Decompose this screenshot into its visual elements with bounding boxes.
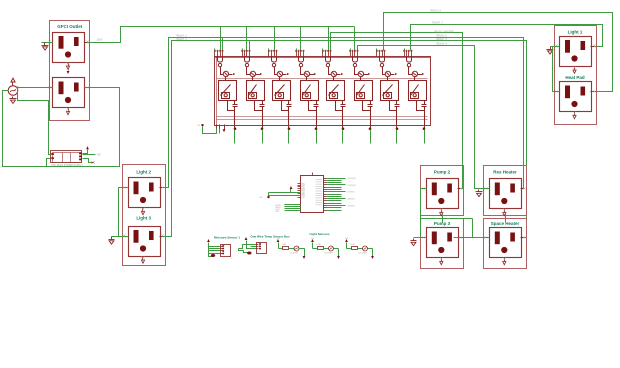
svg-text:PB8: PB8 bbox=[302, 197, 305, 199]
svg-text:RELAY_5: RELAY_5 bbox=[437, 38, 448, 41]
svg-text:HLK-PM01 POWER SUPPLY: HLK-PM01 POWER SUPPLY bbox=[52, 164, 84, 167]
svg-text:D10/SCK: D10/SCK bbox=[347, 185, 356, 187]
svg-text:GL5539: GL5539 bbox=[290, 253, 299, 255]
svg-text:RELAY_MASTER: RELAY_MASTER bbox=[435, 30, 454, 33]
svg-text:RELAY_4: RELAY_4 bbox=[437, 43, 448, 46]
svg-text:Moisture Sensor 1: Moisture Sensor 1 bbox=[214, 236, 240, 240]
svg-text:Res Heater: Res Heater bbox=[493, 170, 517, 175]
svg-text:+5V: +5V bbox=[97, 154, 102, 157]
svg-text:D13/SCK: D13/SCK bbox=[347, 178, 356, 180]
svg-text:LDR: LDR bbox=[282, 244, 287, 246]
svg-text:Light Sensors: Light Sensors bbox=[309, 232, 329, 236]
svg-text:LDR: LDR bbox=[317, 244, 322, 246]
svg-text:D4/SCK: D4/SCK bbox=[347, 199, 355, 201]
svg-text:D1/SCK: D1/SCK bbox=[347, 206, 355, 208]
svg-text:RELAY_8: RELAY_8 bbox=[431, 10, 442, 13]
svg-text:D7/SCK: D7/SCK bbox=[347, 192, 355, 194]
svg-text:115V: 115V bbox=[97, 38, 103, 42]
svg-text:RELAY_2: RELAY_2 bbox=[177, 38, 188, 41]
svg-text:GL5539: GL5539 bbox=[325, 253, 334, 255]
svg-text:Light 1: Light 1 bbox=[568, 30, 583, 35]
svg-text:Heat Pad: Heat Pad bbox=[565, 75, 585, 80]
svg-text:RELAY_7: RELAY_7 bbox=[433, 22, 444, 25]
svg-text:Light 2: Light 2 bbox=[136, 170, 151, 175]
svg-text:LDR: LDR bbox=[351, 244, 356, 246]
svg-text:Pump 2: Pump 2 bbox=[434, 170, 451, 175]
svg-text:Light 3: Light 3 bbox=[136, 215, 151, 220]
svg-text:GFCI Outlet: GFCI Outlet bbox=[57, 24, 82, 29]
svg-text:One Wire Temp Sensor Bus: One Wire Temp Sensor Bus bbox=[250, 235, 290, 239]
svg-text:GL5539: GL5539 bbox=[359, 253, 368, 255]
